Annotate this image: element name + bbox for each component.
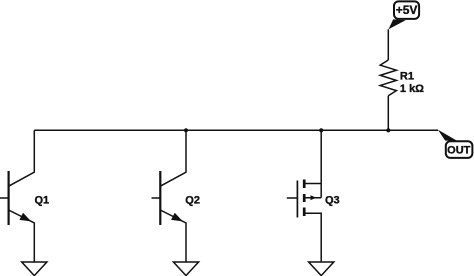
svg-text:Q3: Q3 bbox=[325, 194, 340, 206]
svg-text:1 kΩ: 1 kΩ bbox=[400, 83, 424, 95]
junction node at Q3 drain bbox=[319, 128, 323, 132]
junction node at Q2 collector bbox=[184, 128, 188, 132]
net flag OUT bbox=[438, 130, 473, 158]
transistor Q2 (NPN) bbox=[152, 130, 187, 262]
wire: R1 bottom to output node bbox=[387, 96, 389, 131]
wire: +5V anchor to R1 top bbox=[387, 29, 389, 60]
transistor Q1 (NPN) bbox=[0, 130, 34, 262]
ground at Q1 emitter bbox=[22, 262, 47, 276]
svg-text:R1: R1 bbox=[400, 71, 414, 83]
svg-text:Q1: Q1 bbox=[35, 194, 50, 206]
ground at Q3 source bbox=[309, 262, 334, 276]
junction node at R1 bottom bbox=[386, 128, 390, 132]
svg-text:Q2: Q2 bbox=[185, 194, 200, 206]
net flag +5V bbox=[389, 1, 420, 29]
ground at Q2 emitter bbox=[173, 262, 198, 276]
transistor Q3 (NMOS) bbox=[287, 130, 321, 262]
svg-text:OUT: OUT bbox=[447, 145, 471, 157]
resistor R1 bbox=[380, 60, 396, 96]
wire: main output bus bbox=[34, 129, 438, 131]
svg-text:+5V: +5V bbox=[396, 3, 418, 17]
